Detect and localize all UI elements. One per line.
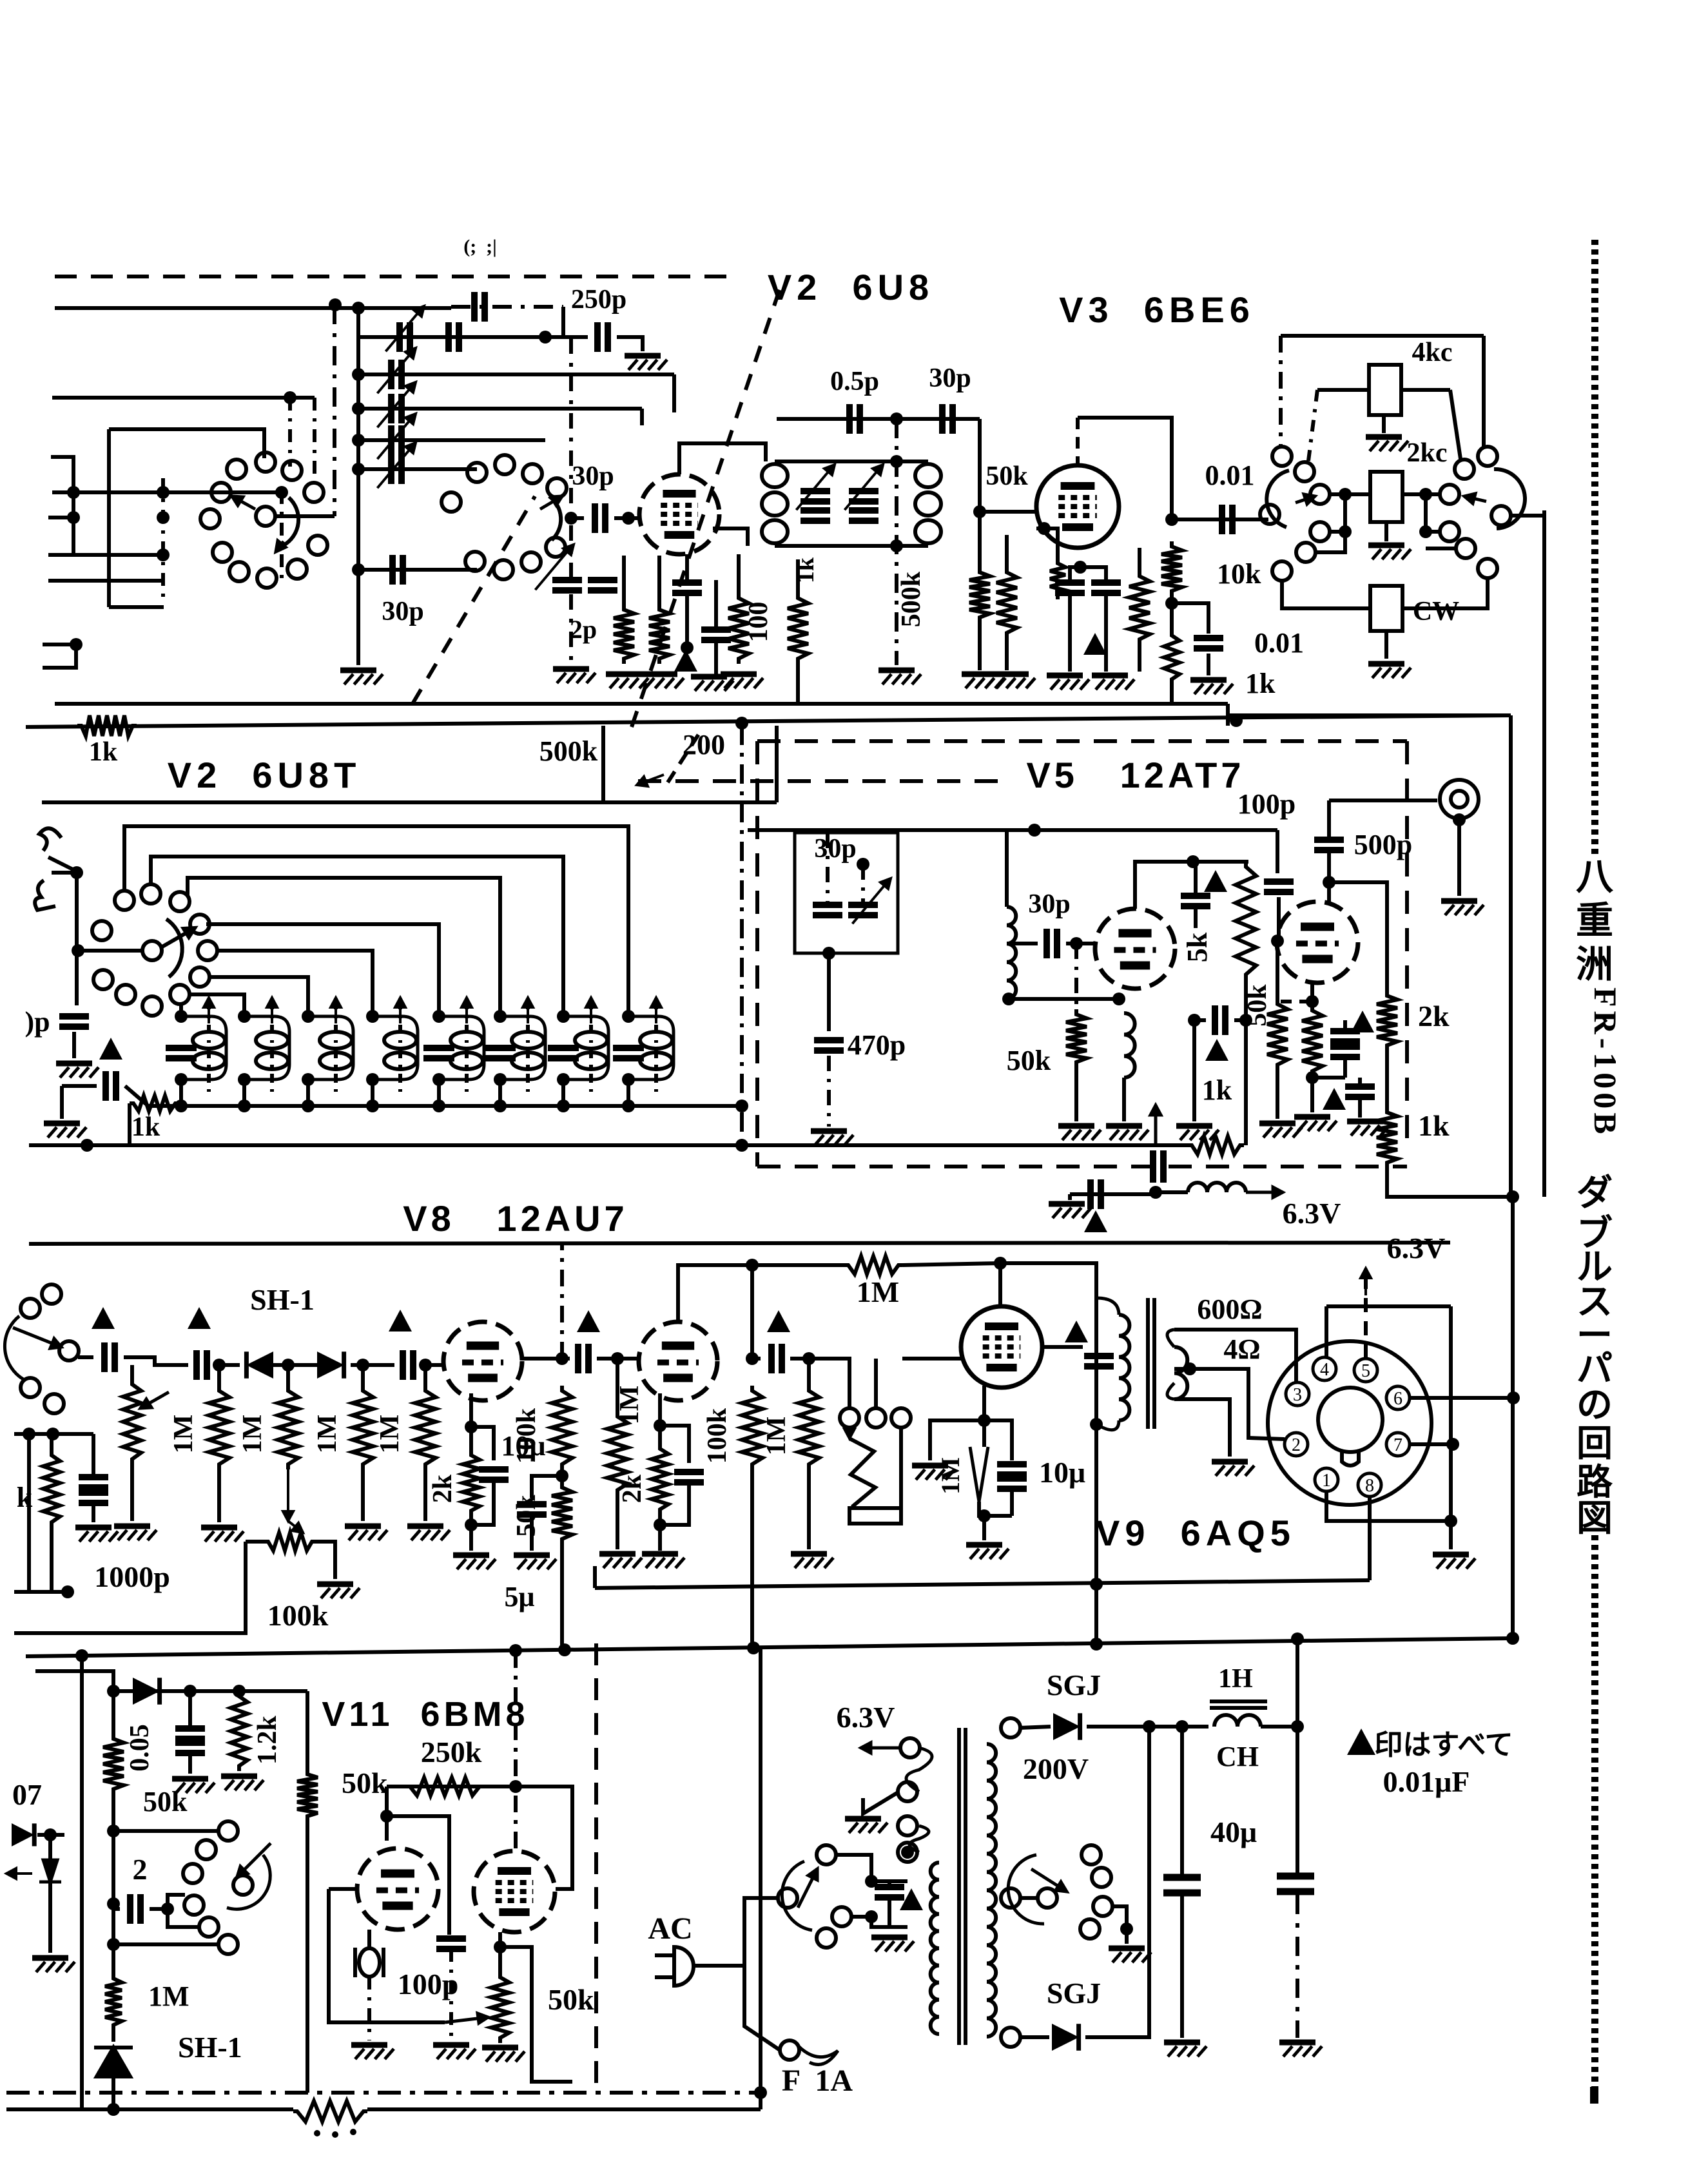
wire 50k bfo dn (1074, 1067, 1078, 1121)
wire v8a kc (471, 1427, 494, 1460)
wire 6.3 dash (1364, 1279, 1368, 1359)
capacitor v5b k b (1330, 1047, 1360, 1057)
resistor 2k v8a (463, 1450, 480, 1516)
capacitor 30p b (942, 404, 953, 434)
tap sec mid (1001, 1888, 1020, 1908)
wire trimmer row 1 (358, 407, 425, 411)
resistor 250k (406, 1777, 483, 1796)
wire v9 screen (1042, 1345, 1083, 1349)
node L1 bot (175, 1073, 188, 1086)
svg-text:の: の (1577, 1386, 1613, 1426)
dash arrow (637, 775, 664, 786)
resistor 50k v5b (1267, 999, 1288, 1070)
wire plug b (655, 1975, 675, 1979)
svg-text:V11 6BM8: V11 6BM8 (322, 1695, 529, 1734)
node xtal (857, 858, 869, 871)
capacitor 0.01 b (1194, 638, 1223, 648)
wire trimmer row 2 out (425, 438, 545, 442)
node tuned bus 281 (175, 1099, 188, 1112)
capacitor trimmer 0 (391, 360, 402, 389)
svg-text:250p: 250p (571, 285, 626, 315)
node v9 k (978, 1414, 991, 1427)
wire det chain c (215, 1363, 240, 1367)
resistor 50k avc (103, 1734, 124, 1794)
wire 2k feed (1329, 882, 1387, 991)
capacitor padder C8 (613, 1048, 644, 1058)
socket pin 7 (1386, 1433, 1410, 1456)
socket pin 3 (1286, 1382, 1309, 1406)
wire 50k avc up (112, 1691, 115, 1734)
wire v8 couple b (597, 1357, 639, 1361)
wire out couple b (790, 1357, 831, 1361)
wire 4kc left drop (1308, 390, 1317, 461)
wire sw to pt b (851, 1917, 899, 1927)
capacitor series (449, 322, 459, 352)
svg-text:)p: )p (24, 1006, 50, 1038)
svg-text:パ: パ (1577, 1350, 1613, 1390)
node pin7 (1446, 1438, 1459, 1451)
svg-text:0.05: 0.05 (125, 1724, 155, 1772)
filter 2kc box (1370, 472, 1402, 522)
capacitor top rail (474, 292, 485, 322)
wire xtal b (861, 864, 865, 905)
switch band B6 (190, 915, 209, 934)
ground v9 k (966, 1545, 1009, 1559)
svg-text:八: 八 (1576, 856, 1614, 898)
triangle det 160 (92, 1307, 115, 1329)
svg-text:0.01μF: 0.01μF (1383, 1765, 1470, 1798)
arrow fb pot (445, 2013, 488, 2023)
switch contact S2-6 (494, 560, 513, 579)
wire v8b plate (678, 1265, 844, 1322)
node L4 bot (366, 1073, 379, 1086)
socket V9 center (1318, 1388, 1383, 1466)
capacitor IFT C1a (801, 491, 830, 501)
ground ant (56, 1063, 99, 1078)
resistor 1M v8b (607, 1411, 628, 1495)
svg-text:100: 100 (744, 602, 773, 643)
crystal X1 (355, 1948, 383, 1977)
inductor bracket L3 (308, 1016, 353, 1080)
triangle v9 (1065, 1321, 1088, 1342)
node v8b plate (746, 1259, 759, 1272)
node L7 top (557, 1010, 570, 1023)
svg-text:2kc: 2kc (1407, 438, 1448, 468)
switch mode 7 (218, 1935, 238, 1954)
switch band arc (166, 919, 182, 977)
wire v9 k2 (984, 1514, 1012, 1518)
wire L1 drop (179, 1080, 183, 1106)
ground 1k bfo (1176, 1126, 1219, 1140)
wire 1M 3 up (361, 1365, 365, 1386)
ground pot (114, 1526, 157, 1540)
svg-text:0.5p: 0.5p (830, 367, 879, 396)
wire 50k up (978, 512, 982, 567)
socket V9 outline (1268, 1341, 1431, 1505)
switch ps 1693 (1082, 1845, 1101, 1864)
wire filt L in (1329, 492, 1370, 496)
svg-text:2k: 2k (428, 1474, 458, 1503)
svg-text:1M: 1M (375, 1415, 405, 1454)
wire 1k node dn (1244, 1020, 1248, 1145)
wire div2 (1170, 684, 1174, 704)
wire 1000p gnd (92, 1503, 95, 1522)
wire dashed bfo bottom (757, 1165, 1407, 1168)
wire plug dn (744, 1966, 780, 2050)
wire v8a plate riser (560, 1244, 564, 1359)
inductor tuned L6 (512, 1032, 544, 1069)
node V3 g2 (1038, 522, 1051, 535)
capacitor 0.5p (849, 404, 860, 434)
switch band1 arc arrow (276, 541, 286, 552)
diode SH-1 (94, 2048, 133, 2093)
triangle mark avc (99, 1038, 122, 1060)
node v5b grid (1271, 935, 1284, 947)
wire v8b grid dn (616, 1495, 619, 1549)
node avc 2841 (107, 1825, 120, 1837)
wire 50k dn2 (978, 623, 982, 670)
wire rect out (1087, 1725, 1208, 1729)
wire down to bus (1511, 1197, 1515, 1638)
wire plug out (695, 1964, 744, 1968)
wire 100k feed (14, 1542, 246, 1633)
node tuned bus 975 (622, 1099, 635, 1112)
wire rect bot (1020, 2035, 1049, 2039)
wire IFT bottom rail (775, 544, 928, 548)
svg-text:500k: 500k (897, 571, 926, 627)
node busB 1169 (747, 1642, 760, 1654)
ground 6.3 (1049, 1204, 1091, 1218)
resistor V2 bias a (614, 605, 634, 664)
wire 1M1 dn (217, 1469, 221, 1522)
node trimmer row 3 (352, 463, 365, 476)
meter V shape (849, 1438, 875, 1507)
wire osc rail (356, 335, 588, 339)
wire dashed diagonal V2 lower (412, 496, 535, 704)
ground cath coil (1106, 1126, 1149, 1140)
svg-text:0.01: 0.01 (1205, 460, 1255, 491)
inductor bracket L1 (181, 1016, 226, 1080)
wire bfo box right (1509, 715, 1513, 1197)
wire ant cap dn (72, 1032, 76, 1058)
wire V3g3 dn (1138, 644, 1141, 672)
node heater (901, 1846, 914, 1859)
diode 07 b (39, 1860, 61, 1882)
wire sh1 dn (112, 2093, 115, 2109)
ground V2 b (641, 674, 684, 688)
wire v11 dash mid (594, 1643, 598, 2087)
wire 4kc gnd (1382, 415, 1386, 433)
svg-text:100k: 100k (267, 1599, 329, 1632)
wire fb (516, 1787, 572, 1889)
wire k left dn (50, 1527, 53, 1592)
node v8b k (654, 1419, 666, 1432)
ground opt (1212, 1462, 1254, 1476)
wire v8 couple a (522, 1357, 570, 1361)
switch wiper filter R (1494, 469, 1525, 528)
wire r up (796, 559, 800, 593)
switch filter L2 (1272, 447, 1292, 466)
node trimmer row 2 (352, 434, 365, 447)
wire r dn (796, 664, 800, 704)
node 250k (509, 1780, 522, 1793)
wire 1k dn (1387, 1168, 1390, 1197)
switch af in 2 (21, 1299, 40, 1318)
wire 0.01b tap (1172, 603, 1208, 634)
node tube grid (622, 512, 635, 525)
capacitor 6.3 (1091, 1179, 1101, 1209)
wire bus y1126 (26, 715, 1511, 727)
resistor V3 g3 (1129, 571, 1150, 644)
trimmer arrow xtal (852, 878, 891, 924)
tap sec bot (1001, 2028, 1020, 2047)
wire band w1 (124, 826, 628, 1016)
wire c40a dn (1180, 1896, 1184, 2038)
resistor 50k pot (491, 1972, 509, 2043)
switch power b (817, 1845, 836, 1864)
wire cap2 up (168, 1895, 185, 1909)
wire rfc link (1156, 1190, 1188, 1194)
wire rail 3247 (6, 2091, 761, 2095)
slug arrow L1 (204, 998, 214, 1023)
wire bfo box top (1230, 713, 1511, 717)
resistor 10k (1161, 541, 1182, 596)
inductor tuned L2 (256, 1032, 288, 1069)
wire 1k gnd (1192, 1020, 1196, 1121)
svg-text:1000p: 1000p (94, 1560, 170, 1593)
wire 100k out dn (750, 1469, 754, 1647)
svg-text:30p: 30p (814, 834, 856, 864)
svg-text:07: 07 (12, 1778, 42, 1811)
wire tuned bus (148, 1104, 742, 1108)
node osc cath b (1112, 993, 1125, 1005)
ground 0.01b (1190, 680, 1233, 694)
wire bus y1092 (55, 702, 1228, 706)
switch band B8 (190, 967, 209, 987)
wire box 6U8T right (775, 726, 779, 802)
wire ps sw out (1112, 1906, 1127, 1924)
resistor V2 bias b (649, 605, 670, 664)
switch band1 arc (284, 498, 298, 545)
wire 50k v5b (1276, 941, 1279, 999)
node lb 253b (157, 511, 170, 524)
ground 4kc (1366, 437, 1408, 451)
slug arrow L3 (331, 998, 341, 1023)
ground 1M1 (201, 1527, 244, 1542)
resistor 1M 3 (353, 1386, 373, 1469)
wire trimmer 30p row (358, 568, 477, 572)
node lb 861 (157, 548, 170, 561)
node v5 grid (1070, 937, 1083, 950)
wire L6 core (526, 1000, 530, 1096)
wire band w6 (208, 977, 308, 1016)
node rfc (1149, 1186, 1162, 1199)
node v11b k (494, 1941, 507, 1953)
node avc 2954 (107, 1897, 120, 1910)
wire dashed bfo left (755, 741, 759, 1167)
wire v5b k c2 (1358, 1097, 1362, 1118)
node choke out (1291, 1720, 1304, 1733)
ground heater (845, 1819, 888, 1833)
node bus1777 a (81, 1139, 93, 1152)
node 500p (1323, 876, 1335, 889)
antenna input (39, 828, 77, 871)
wire ps sw gnd (1125, 1929, 1129, 1944)
ground 100k (317, 1584, 360, 1598)
switch band1 10 (287, 559, 307, 579)
capacitor trimmer 3 (391, 454, 402, 484)
switch 6.3 tap (900, 1738, 920, 1758)
wire bus A left riser (593, 1566, 597, 1588)
wire osc coil bot (1007, 997, 1119, 1001)
inductor bracket L4 (373, 1016, 418, 1080)
wire V3k3 (1104, 593, 1108, 672)
wire 2kc gnd (1384, 522, 1388, 541)
svg-text:SH-1: SH-1 (250, 1283, 315, 1316)
svg-text:V2 6U8T: V2 6U8T (168, 755, 362, 795)
wire v11 gridbox2 (329, 1889, 445, 2022)
wire band w7 (189, 994, 244, 1016)
wire v5b k top (1281, 1000, 1312, 1003)
node out bottom (1506, 1190, 1519, 1203)
wire lb dd2 (313, 398, 316, 489)
node v8a k (465, 1420, 478, 1433)
triangle v8 couple (577, 1310, 600, 1332)
wire 500p rail (1329, 799, 1437, 802)
capacitor 2p a (552, 580, 582, 590)
node rail column (352, 302, 365, 315)
wire 50k r dn (306, 1821, 309, 2093)
wire x1 up (367, 1930, 371, 1948)
wire mode b (113, 1942, 219, 1946)
wire PT core a (957, 1728, 961, 2045)
triangle det 309 (188, 1307, 211, 1329)
slug arrow L4 (395, 998, 405, 1023)
node bus1777 b (735, 1139, 748, 1152)
wire v11 kbox (500, 1947, 572, 2082)
wire IFT center (895, 419, 898, 665)
node 1k bfo a (1188, 1014, 1201, 1027)
capacitor 30p c (1047, 929, 1057, 958)
resistor 1M plate (844, 1256, 902, 1274)
wire lb dd3 (161, 478, 165, 605)
wire opt pri dn (1094, 1298, 1098, 1424)
resistor 1M mode (105, 1973, 122, 2030)
switch filter L3 (1295, 462, 1314, 481)
wire V3k2 (1068, 593, 1072, 672)
wire k left up (50, 1434, 53, 1450)
svg-text:路: 路 (1577, 1463, 1613, 1503)
node pin1 gnd (1444, 1515, 1457, 1527)
capacitor 1000p a (79, 1477, 108, 1487)
wire band w5 (215, 951, 373, 1016)
node v9 k2 (978, 1509, 991, 1522)
switch ps 1 (1038, 1888, 1057, 1908)
wire pin7 riser (1449, 1306, 1453, 1521)
inductor tuned L1 (193, 1032, 225, 1069)
wire v8a k gnd (469, 1516, 473, 1551)
wire filt R in (1402, 492, 1441, 496)
wire v5a plate (1135, 862, 1248, 909)
svg-text:50k: 50k (1243, 984, 1272, 1027)
switch ps wiper (1031, 1869, 1067, 1892)
svg-text:1k: 1k (1245, 668, 1276, 699)
node V3 plate (1165, 513, 1178, 526)
svg-text:F 1A: F 1A (782, 2064, 853, 2098)
switch af arc (5, 1316, 23, 1379)
resistor 1.2k (231, 1691, 247, 1771)
wire bus B (26, 1638, 1513, 1656)
diode SGJ bot (1052, 2024, 1079, 2051)
ground CW (1368, 664, 1411, 678)
switch wiper filter L (1266, 470, 1289, 527)
node tuned bus 1151 (735, 1099, 748, 1112)
slug arrow L5 (461, 998, 472, 1023)
capacitor 250p (597, 322, 608, 352)
svg-text:50k: 50k (985, 461, 1028, 491)
wire 100p dn (1277, 897, 1281, 941)
capacitor V3 k1 (1055, 583, 1085, 593)
wire V3 g2 (1036, 528, 1058, 541)
ground 470p (811, 1131, 853, 1145)
node v8a k2 (465, 1518, 478, 1531)
wire v9 k net (982, 1386, 986, 1447)
wire 30p c (1007, 942, 1038, 945)
ground 2p (553, 669, 596, 683)
node swb (865, 1910, 878, 1923)
node IFT mid (890, 412, 903, 425)
ground 1M4 (407, 1526, 450, 1540)
switch band B2 (141, 884, 160, 904)
ground 1M out (791, 1554, 833, 1568)
wire band w8 (179, 1003, 183, 1016)
ground v5b k2 (1347, 1121, 1390, 1136)
wire V3g3 (1138, 548, 1141, 571)
resistor k left (43, 1450, 60, 1527)
switch phones 1 (840, 1408, 859, 1428)
wire v11b top (514, 1651, 518, 1851)
resistor 1k out (1377, 1107, 1397, 1168)
wire lb y901 (48, 579, 163, 583)
node IFT bot (890, 539, 903, 552)
trimmer arrow 2p (535, 545, 574, 590)
wire L6 drop (498, 1080, 502, 1106)
wire lb dd1 (288, 398, 292, 467)
ground 07 (32, 1958, 75, 1972)
switch band1 7 (213, 543, 232, 562)
node trimmer row 0 (352, 368, 365, 381)
switch contact S2-2 (495, 455, 514, 474)
ground 50k pot (482, 2048, 525, 2062)
wire v9 10u dn (1010, 1489, 1014, 1516)
wire xtal a (826, 833, 830, 905)
inductor OPT pri (1119, 1315, 1129, 1420)
wire switch to grid cap (566, 516, 584, 520)
wire 5u dn (530, 1515, 534, 1551)
wire ant to sw (77, 949, 143, 953)
wire L8 drop (626, 1080, 630, 1106)
switch filter L6 (1296, 543, 1315, 562)
node tuned bus 578 (366, 1099, 379, 1112)
wire avc rail (113, 1689, 307, 1693)
wire 470p (827, 953, 831, 1031)
capacitor 0.05 b (175, 1743, 205, 1753)
node ant (70, 866, 83, 879)
trimmer arrow 0 (377, 348, 416, 393)
wire trimmer column (356, 308, 360, 665)
wire 1k b (1194, 1018, 1206, 1022)
wire sh1 lead (112, 2030, 115, 2048)
